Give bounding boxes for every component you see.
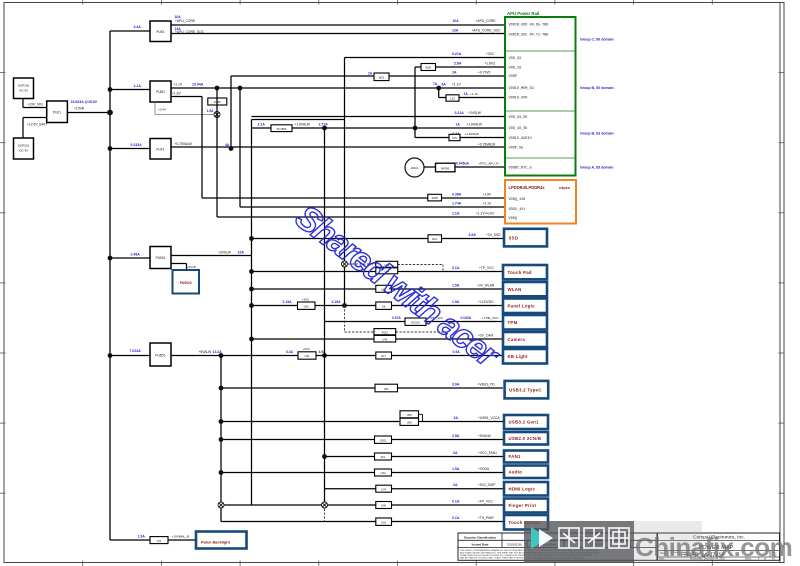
svg-text:L51: L51: [157, 539, 162, 543]
riser x415 W28 to +1.8VALW: [414, 67, 416, 138]
svg-text:2.1A: 2.1A: [258, 122, 266, 126]
svg-text:U51: U51: [384, 387, 389, 391]
svg-text:2.15A: 2.15A: [332, 300, 342, 304]
load box Panel Logic: [503, 299, 547, 314]
svg-text:+3V1P: +3V1P: [187, 265, 196, 269]
svg-text:+1.1V: +1.1V: [452, 83, 462, 87]
svg-text:+12.6V_BATT: +12.6V_BATT: [27, 123, 48, 127]
junction node bus to PUM1: [108, 87, 113, 92]
fuse U8: [376, 302, 392, 309]
svg-text:+USB1_VCCA: +USB1_VCCA: [478, 416, 500, 420]
svg-text:+1.1V: +1.1V: [174, 83, 184, 87]
svg-text:SSD: SSD: [509, 235, 519, 240]
svg-text:+1.8V: +1.8V: [172, 91, 182, 95]
group domain labels: [580, 38, 614, 170]
junction x231 on PUF1 rail: [229, 146, 234, 151]
sense link dashed to U13/U14: [348, 264, 443, 272]
filter U19: [376, 518, 392, 525]
load box USB3.2 TypeC: [505, 381, 549, 399]
resistor U13: [376, 261, 398, 267]
resistor U91: [376, 285, 392, 292]
svg-text:USB2.0 2CN/B: USB2.0 2CN/B: [509, 436, 542, 441]
svg-text:HDMI Logic: HDMI Logic: [509, 486, 536, 491]
junction WLAN wire: [249, 287, 254, 292]
svg-text:1.74A: 1.74A: [452, 201, 462, 205]
svg-text:U62: U62: [381, 471, 386, 475]
load box FAN1: [504, 451, 548, 463]
wire +3V_WLAN through U91: [252, 283, 504, 289]
fuse U20: [298, 302, 316, 309]
svg-text:U21: U21: [305, 354, 310, 358]
svg-text:1.1A: 1.1A: [134, 84, 142, 88]
wire +LCDVDD through U20 and U8: [252, 297, 504, 305]
junction node bus to PUF1: [108, 146, 113, 151]
resistor R113: [374, 329, 396, 335]
junction at x324.5 KB light: [322, 353, 327, 358]
svg-text:10A: 10A: [238, 250, 245, 254]
wire +1.8V2 through W28 into VDD_18: [415, 61, 505, 67]
resistor network RC519: [405, 318, 426, 325]
wire +APU_CORE: [171, 15, 505, 25]
resistor R21: [428, 235, 442, 242]
net tie fingerprint mid: [322, 502, 328, 508]
net tie fingerprint left: [218, 502, 224, 508]
svg-text:+1.8VALW: +1.8VALW: [467, 122, 483, 126]
svg-text:R21: R21: [432, 237, 437, 241]
svg-text:AC-IN: AC-IN: [19, 89, 27, 93]
svg-text:Panel Backlight: Panel Backlight: [201, 540, 231, 545]
svg-text:7A: 7A: [433, 82, 438, 86]
junction SSD wire: [249, 236, 254, 241]
wire +1.1V into VDD2_1V1: [240, 201, 505, 207]
svg-text:13A: 13A: [452, 28, 459, 32]
load box Touch Screen: [504, 515, 548, 530]
junction +1.1V at x217: [215, 86, 220, 91]
filter U66: [376, 502, 392, 509]
wire +3V_CAM through R113/U45: [252, 333, 504, 339]
svg-text:JASC1: JASC1: [410, 166, 419, 170]
svg-text:3.77A: 3.77A: [319, 122, 329, 126]
svg-text:0.045uA: 0.045uA: [456, 161, 470, 165]
svg-text:+APU_CORE: +APU_CORE: [175, 19, 196, 23]
svg-text:+19VBML_B: +19VBML_B: [172, 534, 189, 538]
svg-text:U20: U20: [304, 304, 309, 308]
svg-text:+FP_VCC: +FP_VCC: [478, 499, 494, 503]
svg-text:PU501: PU501: [156, 256, 166, 260]
AC adapter input SUP101: [14, 78, 34, 99]
svg-text:2.15A: 2.15A: [283, 300, 293, 304]
svg-text:VDD_18: VDD_18: [509, 67, 522, 71]
net tie connector on JUMP branch: [214, 112, 220, 118]
connector J2001: [375, 436, 392, 443]
load box WLAN: [503, 282, 547, 296]
svg-text:+TPM_VCC: +TPM_VCC: [482, 316, 499, 320]
svg-text:0.07A: 0.07A: [392, 316, 401, 320]
wire PUE1 input 4.4A: [110, 25, 150, 31]
svg-text:U17: U17: [381, 354, 386, 358]
camera sense dashed link: [345, 306, 447, 340]
svg-text:VDDIO_MEM_S3: VDDIO_MEM_S3: [509, 87, 534, 91]
svg-text:+LCDVDD: +LCDVDD: [478, 300, 494, 304]
wire +VCC_FAN1 through AF1: [325, 451, 504, 457]
wire PU5D1 input 7.024A: [110, 349, 150, 356]
svg-text:PUE1: PUE1: [156, 30, 165, 34]
svg-text:2.5A: 2.5A: [452, 434, 460, 438]
load box Camera: [503, 332, 547, 347]
wire +3V_SSD through R21: [252, 233, 505, 239]
svg-text:PU9022: PU9022: [180, 281, 192, 285]
inductor L51: [150, 537, 168, 544]
svg-text:VDDP_S5: VDDP_S5: [509, 147, 524, 151]
junction USB1_VCCA: [219, 419, 224, 424]
bus +3VSLW riser x344.5: [344, 58, 346, 306]
svg-text:+0.75VALW: +0.75VALW: [175, 142, 193, 146]
svg-text:+3VSLW: +3VSLW: [218, 250, 232, 254]
svg-text:1.5A: 1.5A: [452, 283, 460, 287]
svg-text:1.5A: 1.5A: [452, 467, 460, 471]
wire +APU_CORE_SOC: [171, 27, 505, 34]
coin cell JASC1: [405, 158, 424, 177]
svg-text:FAN1: FAN1: [509, 454, 521, 459]
svg-text:+1.8V2: +1.8V2: [485, 61, 496, 65]
wire +1.8V from PUM1: [171, 91, 202, 96]
wire PUM1 input 1.1A: [110, 84, 150, 90]
svg-text:VDD_18_S5: VDD_18_S5: [509, 127, 528, 131]
svg-text:VDDP: VDDP: [509, 75, 517, 79]
svg-text:VDD2_1V1: VDD2_1V1: [509, 208, 526, 212]
svg-text:Security Classification: Security Classification: [464, 536, 496, 540]
wire +3V2 into VDD_33: [345, 52, 506, 58]
svg-text:JUMP: JUMP: [431, 197, 438, 200]
svg-text:0.38A: 0.38A: [452, 192, 462, 196]
title block: [658, 533, 780, 561]
wire +1.8V through JUMP into VDDQ_1V8: [202, 192, 505, 198]
svg-text:Touch Pad: Touch Pad: [508, 270, 532, 275]
wire +1.8VALW through U76 into VDDIO_AUDIO: [415, 132, 505, 138]
svg-text:10.04A: 10.04A: [192, 83, 204, 87]
wire +19VB from PU01 to main bus: [67, 100, 110, 113]
svg-text:VDD_33_S5: VDD_33_S5: [509, 116, 528, 120]
junction LCDVDD at x251.5: [249, 303, 254, 308]
fuse U17 on KB light wire: [376, 350, 460, 359]
touch IC PU9022: [173, 270, 200, 294]
junction audio wire: [219, 470, 224, 475]
wire +5V2_DISP through U74: [325, 483, 504, 489]
svg-text:+5VALW: +5VALW: [199, 350, 213, 354]
svg-text:1.1A: 1.1A: [452, 211, 460, 215]
chinafix watermark block: [524, 521, 792, 563]
load box USB2.0 2CN/B: [504, 432, 548, 445]
svg-text:+APU_CORE: +APU_CORE: [476, 19, 497, 23]
wire +3VSLW into VDD_33_S5: [252, 111, 506, 117]
svg-text:PU1805: PU1805: [277, 127, 287, 131]
svg-text:U76: U76: [452, 136, 457, 140]
junction Touch Pad wire: [249, 269, 254, 274]
svg-text:10A: 10A: [453, 19, 460, 23]
svg-text:Chinafix.com: Chinafix.com: [635, 532, 792, 562]
junction node 7A at x438.7: [433, 82, 462, 90]
svg-text:PUF1: PUF1: [156, 148, 164, 152]
svg-text:16.923A @19.0V: 16.923A @19.0V: [71, 100, 98, 104]
svg-text:2.5A: 2.5A: [454, 61, 462, 65]
bus +1.8V vertical x202: [201, 97, 203, 199]
svg-text:+VDDA: +VDDA: [478, 467, 490, 471]
svg-text:3.9A: 3.9A: [452, 382, 460, 386]
svg-text:+VBUS_PD: +VBUS_PD: [478, 382, 496, 386]
regulator PU501: [150, 247, 171, 269]
power switch U51: [375, 384, 398, 392]
riser x231 from VDDP wire: [230, 76, 232, 149]
svg-text:+1.8VALW: +1.8VALW: [295, 122, 311, 126]
bus +5VALW vertical x221: [220, 356, 222, 522]
junction LCDVDD at x344.5: [342, 303, 347, 308]
svg-text:APU Power Rail: APU Power Rail: [507, 11, 539, 16]
wire +3VSLW link y119.5: [252, 119, 345, 121]
wire +1.1V/+0.6V into VDDQ: [217, 211, 505, 217]
wire +1.1V 10.04A from PUM1 to VDDIO_MEM_S3: [171, 83, 505, 88]
svg-text:U19: U19: [381, 520, 386, 524]
battery input SUP201: [14, 138, 34, 159]
load box Finger Print: [504, 499, 548, 513]
svg-text:0.1A: 0.1A: [452, 266, 460, 270]
svg-text:1.9A: 1.9A: [138, 534, 146, 538]
svg-text:BAT80: BAT80: [441, 167, 450, 171]
svg-text:WLAN: WLAN: [508, 287, 522, 292]
net tie on touch pad sense: [342, 261, 348, 267]
wire +TS_PWR through U19: [221, 516, 503, 522]
svg-text:+0.73V2: +0.73V2: [478, 70, 491, 74]
junction +5VALW at x221: [219, 353, 224, 358]
bus +1.8VALW vertical x324.5: [324, 128, 326, 522]
wire +USB1_VCCA through U58: [221, 416, 503, 422]
svg-text:SUP101: SUP101: [18, 84, 30, 88]
svg-text:0.1A: 0.1A: [452, 516, 460, 520]
svg-text:LPDDR4/LPDDR4x: LPDDR4/LPDDR4x: [509, 185, 546, 190]
bus +1.1V vertical x240: [239, 88, 241, 207]
svg-text:W28: W28: [425, 66, 431, 70]
wire +12.6V_BATT from SUP201 to PU01: [23, 118, 48, 139]
fuse U21 on +5V2 branch: [286, 347, 326, 359]
svg-text:U74: U74: [381, 487, 386, 491]
wire +5VALW 13.2A from PU5D1 to KB Light row: [171, 350, 503, 356]
load box USB3.2 Gen1: [504, 415, 548, 429]
svg-text:+19V_VIN: +19V_VIN: [28, 103, 44, 107]
regulator PUE1: [150, 21, 171, 42]
svg-text:4A: 4A: [225, 143, 230, 147]
svg-text:USB3.2 Gen1: USB3.2 Gen1: [509, 420, 540, 425]
U56 bracket link: [419, 414, 423, 421]
svg-text:1A: 1A: [464, 92, 469, 96]
jumper JUMP2: [428, 194, 442, 201]
svg-text:L23: L23: [450, 96, 455, 100]
svg-text:2A: 2A: [368, 71, 373, 75]
inductor L23: [446, 92, 479, 101]
svg-text:+1.1V/+0.6V: +1.1V/+0.6V: [476, 211, 495, 215]
svg-text:+0.78VALW: +0.78VALW: [478, 142, 496, 146]
svg-text:VDDCR_VDD #0.65-TBD: VDDCR_VDD #0.65-TBD: [509, 24, 549, 28]
svg-text:PUM1: PUM1: [156, 90, 165, 94]
svg-text:+3V_WLAN: +3V_WLAN: [477, 283, 495, 287]
wire +TPM_VCC through RC519: [325, 316, 504, 322]
svg-text:VDDQ: VDDQ: [509, 217, 517, 221]
junction VBUS_PD: [219, 386, 224, 391]
wire branch through inductor L23 to VDDIO_VPH: [439, 88, 505, 98]
svg-text:Group B, S0 domain: Group B, S0 domain: [580, 86, 614, 90]
junction FAN1 wire: [322, 454, 327, 459]
svg-text:+5VALW: +5VALW: [478, 434, 492, 438]
regulator PU1805 box: [271, 125, 292, 132]
svg-text:U8: U8: [382, 304, 386, 308]
svg-text:Issued Date: Issued Date: [472, 543, 489, 547]
svg-text:U58: U58: [407, 421, 412, 425]
svg-text:3.5A: 3.5A: [469, 233, 477, 237]
svg-text:+TS_PWR: +TS_PWR: [478, 516, 494, 520]
svg-text:Panel Logic: Panel Logic: [508, 303, 536, 308]
svg-text:W22: W22: [379, 75, 385, 79]
svg-text:+1.1V: +1.1V: [483, 201, 493, 205]
svg-text:0.21A: 0.21A: [452, 52, 462, 56]
svg-text:VDDBT_RTC_G: VDDBT_RTC_G: [509, 167, 532, 171]
filter U62: [375, 469, 392, 476]
junction USB2 wire: [219, 437, 224, 442]
svg-text:+3V2: +3V2: [302, 297, 309, 301]
svg-text:Group C, S0 domain: Group C, S0 domain: [580, 38, 614, 42]
svg-text:6A: 6A: [442, 83, 447, 87]
wire +VBUS_PD through U51: [221, 382, 503, 388]
wire +3VSLW 10A from PU501: [171, 250, 252, 255]
svg-text:SUP201: SUP201: [18, 144, 30, 148]
wire +0.73V2 through W22 into VDDP: [231, 70, 505, 76]
svg-text:0.21A: 0.21A: [455, 111, 465, 115]
svg-text:+1.1V: +1.1V: [470, 92, 479, 96]
junction x324.5 top on +1.8VALW: [322, 126, 327, 131]
svg-text:DC-IN: DC-IN: [19, 149, 28, 153]
power switch U58: [400, 418, 419, 425]
load box KB Light: [503, 349, 547, 364]
load box HDMI Logic: [504, 482, 548, 496]
svg-text:R113: R113: [382, 330, 389, 334]
svg-text:+3V2: +3V2: [486, 52, 494, 56]
junction node bus to PU501: [108, 256, 113, 261]
svg-text:TPM: TPM: [508, 320, 518, 325]
svg-text:Group B, S3 domain: Group B, S3 domain: [580, 132, 614, 136]
svg-text:VDDIO_VPH: VDDIO_VPH: [509, 97, 528, 101]
svg-text:USB3.2 TypeC: USB3.2 TypeC: [509, 387, 542, 392]
svg-text:Finger Print: Finger Print: [509, 503, 537, 508]
wire Panel Backlight 1.9A: [110, 534, 196, 540]
wire +5VALW through J2001 to USB2.0: [221, 434, 503, 440]
svg-text:+RTC_APU_R: +RTC_APU_R: [479, 161, 500, 165]
svg-text:PU01: PU01: [53, 111, 61, 115]
load box TPM: [503, 315, 547, 330]
svg-text:PU5D1: PU5D1: [155, 354, 166, 358]
main +19VB bus vertical: [109, 31, 111, 540]
svg-text:+VCC_FAN1: +VCC_FAN1: [478, 451, 497, 455]
svg-text:2.48A: 2.48A: [131, 252, 141, 256]
resistor U14: [376, 268, 398, 274]
svg-text:Group A, S5 domain: Group A, S5 domain: [580, 166, 614, 170]
svg-text:3.4A: 3.4A: [286, 350, 294, 354]
junction x415 on +1.8VALW: [413, 126, 418, 131]
charger PU01: [47, 101, 68, 123]
svg-text:7.024A: 7.024A: [130, 349, 142, 353]
resistor U45: [374, 335, 396, 342]
power switch U56: [400, 411, 419, 418]
load box Panel Backlight: [196, 532, 247, 549]
junction camera wire: [249, 337, 254, 342]
junction +1.1V at x240: [238, 86, 243, 91]
wire +0.4V from PUM1 bottom: [155, 102, 214, 115]
svg-text:+5V2_DISP: +5V2_DISP: [478, 483, 496, 487]
svg-text:J2001: J2001: [379, 438, 387, 442]
svg-text:Camera: Camera: [508, 337, 526, 342]
power switch U74: [376, 485, 392, 492]
svg-text:+0.4V: +0.4V: [158, 108, 167, 112]
load box Touch Pad: [503, 265, 547, 279]
svg-text:0.233A: 0.233A: [131, 143, 143, 147]
svg-text:VDDCR_SOC #0.72-TBD: VDDCR_SOC #0.72-TBD: [509, 34, 549, 38]
junction node bus to PU5D1: [108, 353, 113, 358]
regulator PU1805 and +1.8VALW wire into VDD_18_S5: [252, 122, 506, 128]
svg-text:+1.8V: +1.8V: [483, 192, 493, 196]
svg-text:2A: 2A: [453, 483, 458, 487]
bus +3VSLW vertical x251.5: [251, 120, 253, 506]
regulator PUF1: [150, 139, 171, 160]
svg-text:+19VB: +19VB: [74, 107, 85, 111]
wire +FP_VCC through U66: [221, 499, 503, 505]
svg-text:3A: 3A: [454, 416, 459, 420]
wire +0.75VALW from PUF1 to VDDP_S5: [171, 142, 505, 147]
svg-text:2A: 2A: [453, 451, 458, 455]
regulator PU5D1: [150, 343, 171, 366]
wire RTC through BAT80: [424, 161, 505, 167]
svg-text:U66: U66: [381, 504, 386, 508]
wire +TP_VCC to Touch Pad: [252, 266, 504, 272]
svg-text:+1.8VALW: +1.8VALW: [465, 132, 479, 136]
junction node on bus at PU01 output: [107, 110, 113, 116]
load box Audio: [504, 466, 548, 479]
wire PUF1 input 0.233A: [110, 143, 150, 149]
svg-text:e4pcs: e4pcs: [559, 185, 570, 190]
svg-text:+5V2: +5V2: [303, 347, 310, 351]
svg-text:VDD_33: VDD_33: [509, 57, 522, 61]
svg-text:+3VSLW: +3VSLW: [468, 111, 482, 115]
svg-text:U45: U45: [382, 337, 387, 341]
fuse AF1: [375, 453, 392, 460]
svg-text:VDDQ_1V8: VDDQ_1V8: [509, 198, 526, 202]
load box SSD: [504, 229, 547, 247]
wire +19V_VIN from SUP101 to PU01: [23, 99, 47, 108]
wire +VDDA through U62: [221, 467, 503, 473]
APU Power Rail group box: [505, 11, 576, 176]
svg-text:1.5A: 1.5A: [452, 300, 460, 304]
svg-text:KB Light: KB Light: [508, 354, 529, 359]
svg-text:1.9A: 1.9A: [207, 109, 215, 113]
svg-text:+APU_CORE_SOC: +APU_CORE_SOC: [472, 28, 502, 32]
wire PU501 input 2.48A: [110, 252, 150, 258]
svg-text:4.4A: 4.4A: [134, 25, 142, 29]
battery holder BAT80: [436, 163, 456, 172]
resistor W28: [421, 64, 436, 71]
security classification table: [458, 533, 657, 560]
svg-text:AF1: AF1: [381, 455, 386, 459]
resistor W22: [374, 73, 389, 81]
svg-text:+3V_SSD: +3V_SSD: [486, 233, 501, 237]
svg-text:0.1A: 0.1A: [452, 499, 460, 503]
svg-text:VDDIO_AUDIO: VDDIO_AUDIO: [509, 137, 532, 141]
regulator PUM1: [150, 81, 171, 102]
jumper JUMP on +1.1V branch: [208, 98, 227, 105]
